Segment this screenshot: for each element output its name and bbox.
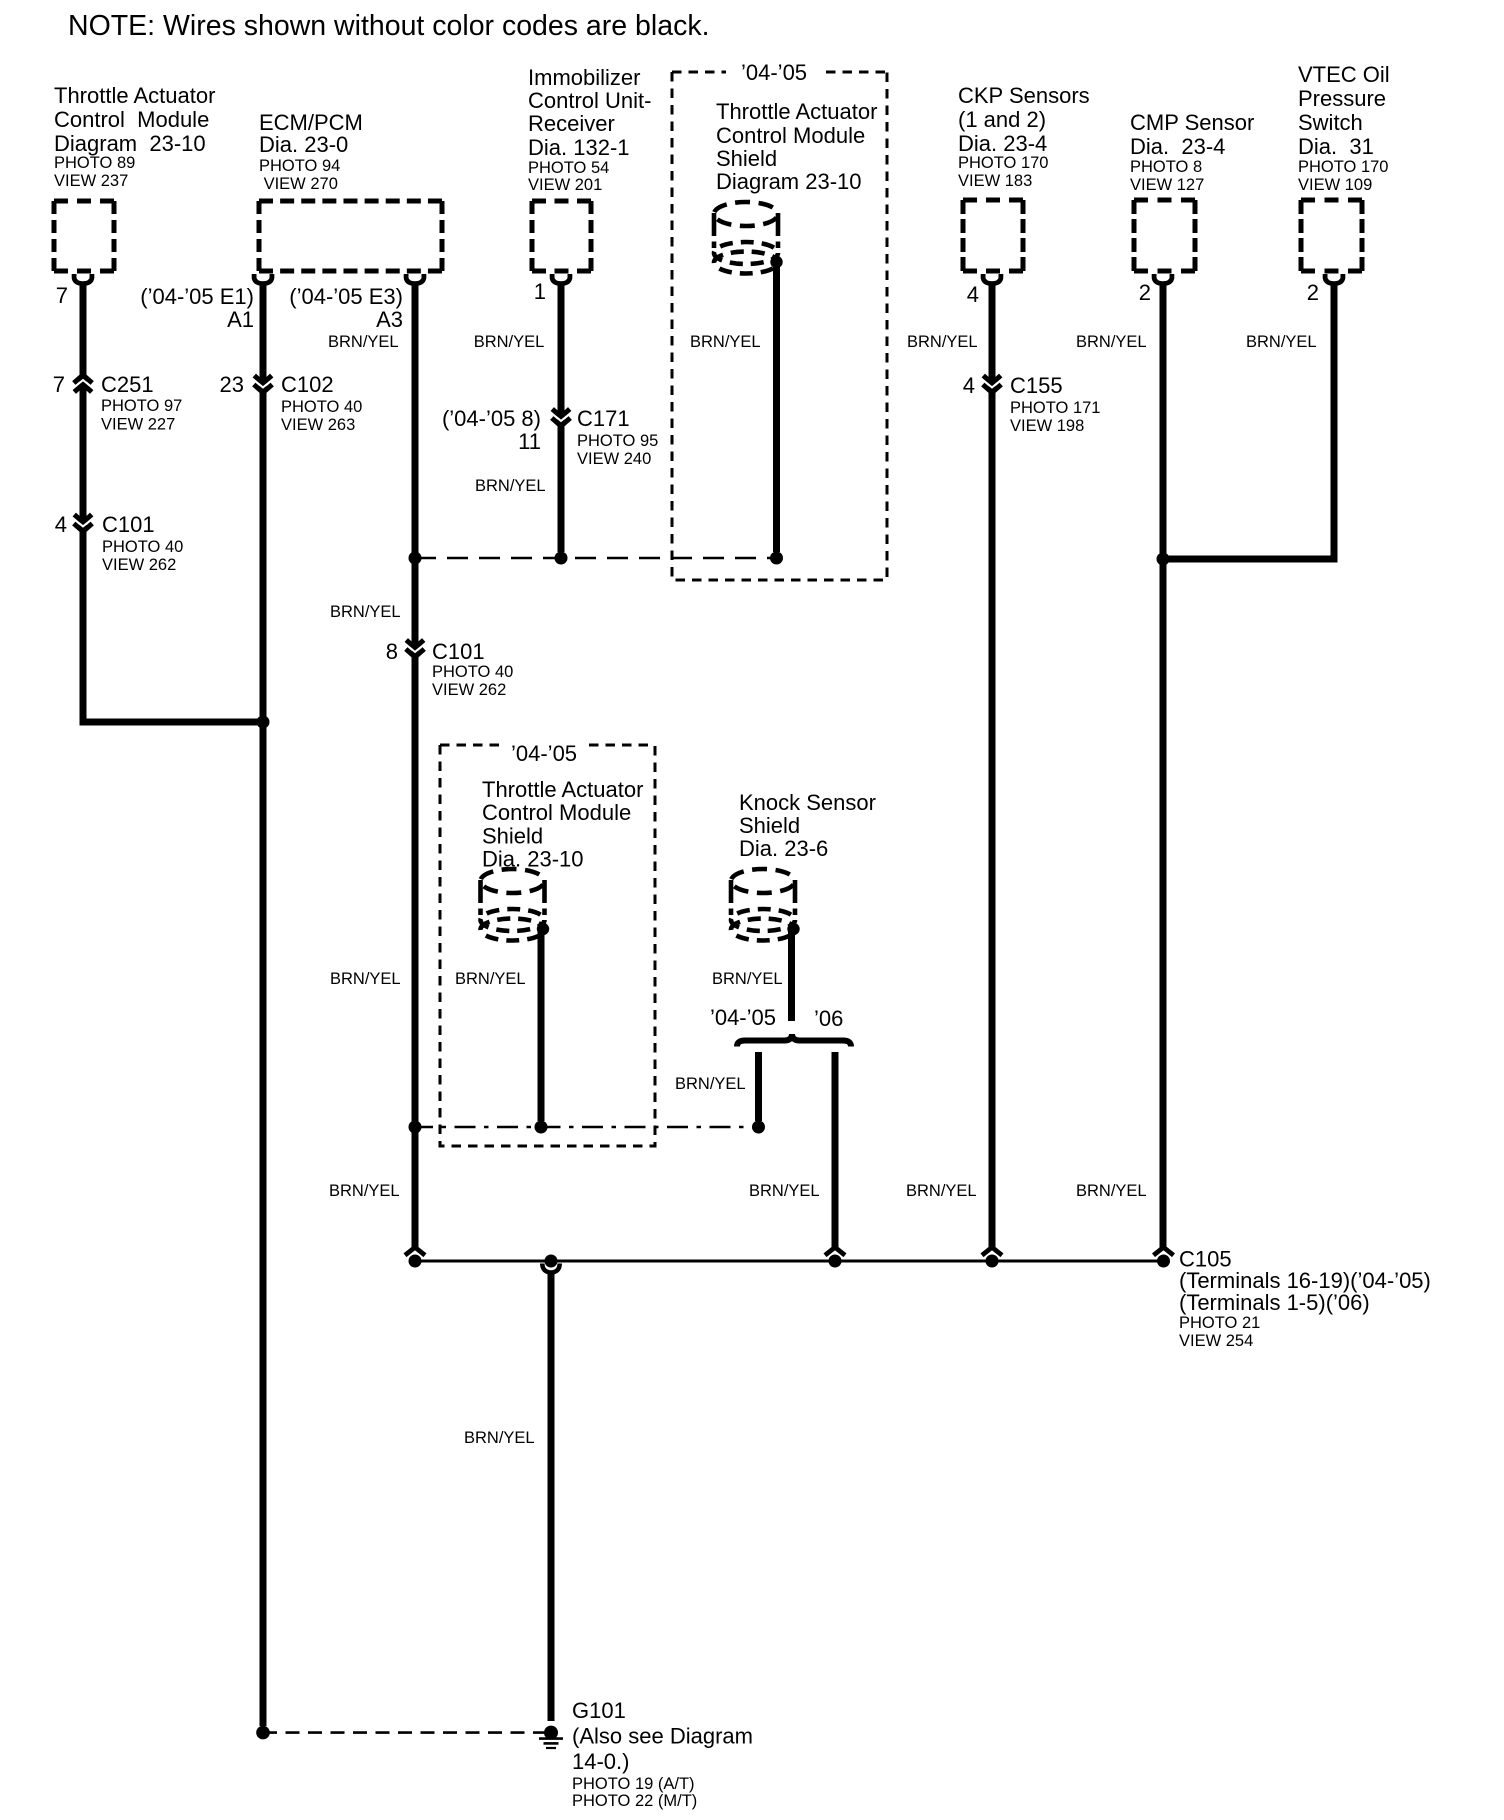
svg-text:Shield: Shield (716, 146, 777, 171)
svg-text:VIEW 198: VIEW 198 (1010, 417, 1084, 435)
wire: VTEC pin 2 down then left into CMP wire (1166, 283, 1338, 559)
svg-text:Throttle Actuator: Throttle Actuator (716, 99, 877, 124)
svg-text:Shield: Shield (482, 824, 543, 849)
svg-text:BRN/YEL: BRN/YEL (329, 1182, 400, 1200)
svg-text:BRN/YEL: BRN/YEL (464, 1429, 535, 1447)
junction dot shield middle at dash-dot line (535, 1121, 548, 1134)
node Immobilizer Control Unit-Receiver label (528, 65, 651, 194)
svg-text:BRN/YEL: BRN/YEL (712, 970, 783, 988)
svg-text:BRN/YEL: BRN/YEL (1076, 333, 1147, 351)
svg-text:VIEW 227: VIEW 227 (101, 416, 175, 434)
ground G101 labels (572, 1698, 753, 1810)
svg-text:BRN/YEL: BRN/YEL (675, 1075, 746, 1093)
svg-text:2: 2 (1139, 280, 1151, 305)
shield symbol: Throttle Actuator Control Module Shield (top) (714, 99, 877, 274)
node CMP Sensor label (1130, 110, 1254, 194)
svg-text:(’04-’05 8): (’04-’05 8) (442, 406, 541, 431)
svg-text:VIEW 237: VIEW 237 (54, 172, 128, 190)
svg-text:BRN/YEL: BRN/YEL (455, 970, 526, 988)
svg-text:BRN/YEL: BRN/YEL (330, 603, 401, 621)
junction dot knock 04-05 branch at dash-dot line (752, 1121, 765, 1134)
svg-text:VIEW 127: VIEW 127 (1130, 176, 1204, 194)
svg-text:VIEW 263: VIEW 263 (281, 416, 355, 434)
svg-text:VTEC Oil: VTEC Oil (1298, 62, 1390, 87)
wire: Immobilizer down to shield dashed line (558, 426, 565, 553)
svg-text:NOTE: Wires shown without colo: NOTE: Wires shown without color codes ar… (68, 10, 710, 42)
wire: Knock Sensor Shield drain down to year bracket (788, 928, 795, 1021)
svg-text:Immobilizer: Immobilizer (528, 65, 640, 90)
svg-text:Knock Sensor: Knock Sensor (739, 790, 876, 815)
svg-text:PHOTO 8: PHOTO 8 (1130, 158, 1202, 176)
svg-text:CKP Sensors: CKP Sensors (958, 83, 1090, 108)
terminal chevron A3 at bus (405, 1247, 425, 1255)
svg-text:VIEW 262: VIEW 262 (102, 556, 176, 574)
svg-text:VIEW 262: VIEW 262 (432, 681, 506, 699)
svg-text:BRN/YEL: BRN/YEL (328, 333, 399, 351)
svg-text:BRN/YEL: BRN/YEL (907, 333, 978, 351)
svg-text:7: 7 (56, 283, 68, 308)
connector C102 labels (220, 372, 363, 434)
svg-text:PHOTO 40: PHOTO 40 (432, 663, 513, 681)
svg-text:’06: ’06 (814, 1006, 843, 1031)
pin 7 fork terminal at Throttle Actuator Control Module (74, 274, 92, 284)
svg-text:’04-’05: ’04-’05 (511, 741, 577, 766)
terminal chevron CMP at bus (C105) (1154, 1247, 1174, 1255)
svg-text:4: 4 (963, 373, 975, 398)
pin A1 fork terminal at ECM/PCM (254, 274, 272, 284)
connector box: CKP Sensors (963, 198, 1023, 203)
terminal chevron CKP at bus (982, 1247, 1002, 1255)
svg-text:BRN/YEL: BRN/YEL (474, 333, 545, 351)
wire: TACM pin 7 down (upper segment) (80, 283, 87, 375)
svg-text:BRN/YEL: BRN/YEL (1246, 333, 1317, 351)
svg-text:BRN/YEL: BRN/YEL (1076, 1182, 1147, 1200)
connector C105 labels (1179, 1247, 1431, 1351)
fork terminal below bus for G101 drop (542, 1264, 559, 1273)
dashed ground link line y=1732 (263, 1731, 546, 1734)
svg-text:PHOTO 40: PHOTO 40 (102, 538, 183, 556)
svg-text:VIEW 240: VIEW 240 (577, 450, 651, 468)
svg-text:PHOTO 94: PHOTO 94 (259, 157, 340, 175)
shield symbol: Knock Sensor Shield (731, 790, 876, 941)
svg-text:BRN/YEL: BRN/YEL (475, 477, 546, 495)
svg-text:C102: C102 (281, 372, 334, 397)
svg-text:’04-’05: ’04-’05 (741, 60, 807, 85)
wire: CMP pin 2 down to bus (1160, 283, 1167, 1248)
wire: CKP down to bus (989, 392, 996, 1248)
svg-text:PHOTO 170: PHOTO 170 (1298, 158, 1388, 176)
connector C251 inline symbol (80, 374, 87, 394)
svg-text:4: 4 (967, 282, 979, 307)
svg-text:(Terminals 1-5)(’06): (Terminals 1-5)(’06) (1179, 1290, 1370, 1315)
svg-text:A1: A1 (227, 307, 254, 332)
wire: G101 drop to ground (548, 1272, 555, 1721)
svg-text:Diagram 23-10: Diagram 23-10 (716, 169, 862, 194)
ground bus line to C105 (415, 1260, 1164, 1263)
svg-text:CMP Sensor: CMP Sensor (1130, 110, 1254, 135)
junction dot G101 drop at bus (545, 1255, 558, 1268)
svg-text:PHOTO 95: PHOTO 95 (577, 432, 658, 450)
wire: ECM/PCM A1 down (upper segment) (260, 283, 267, 376)
node Throttle Actuator Control Module label (54, 83, 215, 190)
svg-text:PHOTO 97: PHOTO 97 (101, 397, 182, 415)
junction dot Immobilizer at dashed line (555, 552, 568, 565)
svg-text:1: 1 (534, 279, 546, 304)
svg-text:(1 and 2): (1 and 2) (958, 107, 1046, 132)
svg-text:BRN/YEL: BRN/YEL (749, 1182, 820, 1200)
wire: TACM Shield (top) drain down to dashed line (773, 260, 780, 552)
ground symbol G101 (539, 1726, 563, 1748)
node VTEC Oil Pressure Switch label (1298, 62, 1390, 194)
svg-text:Control Module: Control Module (54, 107, 209, 132)
year bracket 04-05 / 06 (737, 1034, 851, 1047)
svg-text:VIEW 201: VIEW 201 (528, 176, 602, 194)
pin 2 fork terminal at CMP Sensor (1154, 274, 1172, 284)
svg-text:Switch: Switch (1298, 110, 1363, 135)
svg-text:C171: C171 (577, 406, 630, 431)
svg-text:Dia. 23-0: Dia. 23-0 (259, 132, 348, 157)
wire: knock 06 branch down to bus (832, 1052, 839, 1248)
svg-text:PHOTO 54: PHOTO 54 (528, 159, 609, 177)
pin 4 fork terminal at CKP Sensors (983, 274, 1001, 284)
junction dot CKP at bus (986, 1255, 999, 1268)
node CKP Sensors label (958, 83, 1090, 190)
svg-text:7: 7 (53, 372, 65, 397)
svg-text:Dia. 23-6: Dia. 23-6 (739, 836, 828, 861)
pin A3 fork terminal at ECM/PCM (406, 274, 424, 284)
connector box: Throttle Actuator Control Module (54, 199, 114, 204)
svg-text:Throttle Actuator: Throttle Actuator (54, 83, 215, 108)
svg-text:Dia. 132-1: Dia. 132-1 (528, 135, 630, 160)
svg-text:PHOTO 21: PHOTO 21 (1179, 1314, 1260, 1332)
svg-text:Dia. 31: Dia. 31 (1298, 134, 1374, 159)
svg-text:’04-’05: ’04-’05 (710, 1005, 776, 1030)
shield symbol: Throttle Actuator Control Module Shield (middle box) (481, 777, 644, 941)
wire: ECM/PCM A3 down (upper segment) (412, 283, 419, 641)
svg-text:Dia. 23-4: Dia. 23-4 (958, 131, 1047, 156)
svg-text:2: 2 (1307, 280, 1319, 305)
svg-text:14-0.): 14-0.) (572, 1749, 629, 1774)
node ECM/PCM label (259, 110, 363, 193)
svg-text:BRN/YEL: BRN/YEL (906, 1182, 977, 1200)
junction dot knock 06 branch at bus (829, 1255, 842, 1268)
connector C251 labels (53, 372, 183, 434)
svg-text:VIEW 183: VIEW 183 (958, 172, 1032, 190)
svg-text:BRN/YEL: BRN/YEL (330, 970, 401, 988)
svg-text:PHOTO 19 (A/T): PHOTO 19 (A/T) (572, 1775, 695, 1793)
svg-text:VIEW 254: VIEW 254 (1179, 1332, 1253, 1350)
connector box: CMP Sensor (1134, 198, 1195, 203)
connector box: ECM/PCM (259, 199, 442, 204)
connector C101 (4) labels (55, 512, 184, 574)
svg-text:Shield: Shield (739, 813, 800, 838)
svg-text:8: 8 (386, 639, 398, 664)
wire: knock 04-05 branch down to dash-dot line (755, 1052, 762, 1121)
connector box: Immobilizer Control Unit-Receiver (532, 199, 591, 204)
svg-text:BRN/YEL: BRN/YEL (690, 333, 761, 351)
connector box: VTEC Oil Pressure Switch (1301, 198, 1362, 203)
svg-text:VIEW 109: VIEW 109 (1298, 176, 1372, 194)
pin 1 fork terminal at Immobilizer (552, 274, 570, 284)
junction dot CMP at bus end (1157, 1255, 1170, 1268)
svg-text:A3: A3 (376, 307, 403, 332)
svg-text:(’04-’05 E3): (’04-’05 E3) (289, 284, 403, 309)
svg-text:(’04-’05 E1): (’04-’05 E1) (140, 284, 254, 309)
junction dot A3 x shield dashed line (409, 552, 422, 565)
connector C155 labels (963, 373, 1101, 435)
junction dot shield drain at dashed line (770, 552, 783, 565)
svg-text:Dia. 23-4: Dia. 23-4 (1130, 134, 1225, 159)
wire: Immobilizer pin 1 down (upper segment) (558, 283, 565, 410)
connector C102 inline symbol (260, 374, 267, 394)
svg-text:G101: G101 (572, 1698, 626, 1723)
svg-text:C155: C155 (1010, 373, 1063, 398)
junction dot A3 at bus (409, 1255, 422, 1268)
connector C101 (8) inline symbol (412, 639, 419, 659)
dashed region box 04-05 (top, Throttle Actuator Control Module Shield) (672, 72, 887, 580)
svg-text:Throttle Actuator: Throttle Actuator (482, 777, 643, 802)
terminal chevron knock 06 branch at bus (825, 1247, 845, 1255)
connector C101 (8) labels (386, 639, 514, 699)
dash-dot link line y=1127 (412, 1126, 760, 1129)
connector C101 (4) inline symbol (80, 513, 87, 533)
junction dot A3 x dash-dot line (409, 1121, 422, 1134)
svg-text:PHOTO 40: PHOTO 40 (281, 398, 362, 416)
svg-text:C251: C251 (101, 372, 154, 397)
svg-text:Control Module: Control Module (716, 123, 865, 148)
svg-text:PHOTO 170: PHOTO 170 (958, 154, 1048, 172)
wire: CKP pin 4 down (upper segment) (989, 283, 996, 376)
svg-text:Pressure: Pressure (1298, 86, 1386, 111)
wire: TACM pin 7 down to corner and right to A1 wire (80, 392, 87, 719)
svg-text:PHOTO 22 (M/T): PHOTO 22 (M/T) (572, 1792, 697, 1810)
svg-text:Dia. 23-10: Dia. 23-10 (482, 847, 584, 872)
svg-text:23: 23 (220, 372, 244, 397)
svg-text:C101: C101 (432, 639, 485, 664)
connector C171 inline symbol (558, 408, 565, 428)
svg-text:Control Unit-: Control Unit- (528, 88, 651, 113)
svg-text:(Also see Diagram: (Also see Diagram (572, 1724, 753, 1749)
dashed region box 04-05 (middle, Throttle Actuator Control Module Shield) (440, 745, 655, 1146)
svg-text:PHOTO 89: PHOTO 89 (54, 154, 135, 172)
svg-text:Diagram 23-10: Diagram 23-10 (54, 131, 206, 156)
svg-text:11: 11 (518, 429, 541, 454)
connector C155 inline symbol (989, 374, 996, 394)
wire: ECM/PCM A1 long vertical down to ground dashed link (260, 392, 267, 1726)
junction dot on A1 wire at y=722 (257, 716, 270, 729)
connector C171 labels (442, 406, 658, 468)
svg-text:PHOTO 171: PHOTO 171 (1010, 399, 1100, 417)
wire: TACM Shield (middle) drain down to dash-dot line (538, 928, 545, 1121)
wire: ECM/PCM A3 down to bus (412, 657, 419, 1249)
dashed shield link line y=557 (415, 557, 776, 560)
pin 2 fork terminal at VTEC Oil Pressure Switch (1325, 274, 1343, 284)
svg-text:Control Module: Control Module (482, 800, 631, 825)
svg-text:C101: C101 (102, 512, 155, 537)
svg-text:VIEW 270: VIEW 270 (259, 175, 338, 193)
svg-text:4: 4 (55, 512, 67, 537)
svg-text:Receiver: Receiver (528, 111, 615, 136)
junction dot at bottom of A1 wire (256, 1726, 270, 1740)
junction dot CMP x VTEC branch (1157, 553, 1170, 566)
